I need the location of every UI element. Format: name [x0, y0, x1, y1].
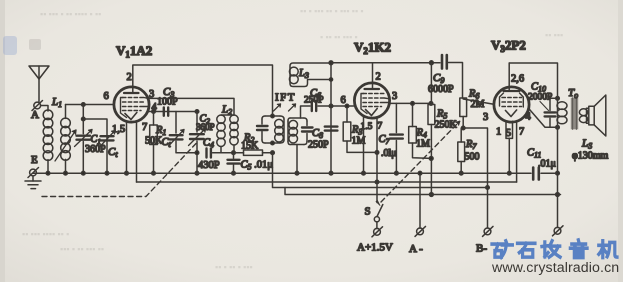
- svg-text:A -: A -: [409, 243, 423, 255]
- capacitor C3: [164, 108, 168, 116]
- wire pin3 oscillator: [147, 98, 234, 115]
- resistor R5: [428, 61, 435, 197]
- wire R6 to V3 grid: [463, 99, 494, 104]
- terminal A-: [415, 226, 426, 236]
- svg-text:2,6: 2,6: [511, 74, 524, 85]
- capacitor C5: [228, 154, 240, 175]
- svg-text:1: 1: [496, 127, 501, 138]
- resistor R3: [343, 104, 377, 152]
- terminal A+1.5V: [372, 227, 383, 237]
- svg-text:▪▪ ▪ ▪▪▪ ▪▪ ▪ ▪▪▪ ▪▪ ▪: ▪▪ ▪ ▪▪▪ ▪▪ ▪ ▪▪▪ ▪▪ ▪: [300, 6, 364, 16]
- svg-text:250P: 250P: [304, 96, 324, 106]
- capacitor C11: [533, 168, 539, 180]
- tube V2 (1K2): [354, 63, 389, 118]
- svg-text:V32P2: V32P2: [491, 38, 526, 55]
- V2 filament leg 1.5: [363, 117, 365, 173]
- terminal A: [32, 101, 43, 111]
- svg-text:▪▪▪ ▪ ▪▪ ▪▪▪ ▪▪: ▪▪▪ ▪ ▪▪ ▪▪▪ ▪▪: [60, 244, 104, 254]
- svg-text:B-: B-: [476, 243, 487, 255]
- C10 leader line: [540, 102, 549, 111]
- wire grid node down: [82, 105, 84, 120]
- rail B2: [273, 153, 488, 188]
- svg-text:500: 500: [465, 152, 480, 163]
- svg-text:3: 3: [483, 112, 488, 123]
- capacitor C7: [390, 103, 403, 175]
- watermark CJK 矿石收音机: [492, 240, 617, 258]
- coil L1 primary: [43, 110, 53, 173]
- V2 filament leg 7: [376, 117, 378, 182]
- svg-text:3: 3: [392, 91, 397, 102]
- svg-text:250P: 250P: [308, 140, 329, 151]
- svg-text:50K: 50K: [145, 136, 163, 147]
- V3 pin 4 wire: [529, 109, 558, 128]
- svg-text:2: 2: [127, 72, 132, 83]
- ground: [25, 176, 41, 189]
- net line x331: [329, 61, 333, 175]
- V3 top wire to To: [509, 63, 557, 98]
- svg-text:6: 6: [341, 95, 346, 106]
- svg-text:2: 2: [376, 72, 381, 83]
- IFT tuning arrows: [274, 104, 296, 111]
- wire R6 bottom to B- drop: [463, 128, 487, 228]
- transformer To secondary: [579, 108, 587, 123]
- svg-text:100P: 100P: [157, 97, 178, 108]
- svg-text:▪▪ ▪▪▪ ▪▪▪▪ ▪▪ ▪: ▪▪ ▪▪▪ ▪▪▪▪ ▪▪ ▪: [22, 229, 69, 239]
- resistor R6: [460, 98, 467, 130]
- coil L1 secondary: [61, 105, 71, 174]
- capacitor C8: [325, 127, 338, 131]
- wire pin4: [148, 111, 197, 113]
- wire V2 grid pin6: [331, 105, 354, 107]
- svg-text:A: A: [31, 109, 39, 121]
- antenna: [29, 66, 49, 102]
- wire V2 plate pin3: [390, 102, 432, 104]
- dashed gang line: [42, 144, 196, 197]
- wire pin6 V1: [66, 104, 114, 106]
- capacitor C2 variable: [189, 112, 206, 176]
- svg-text:1,5: 1,5: [112, 124, 125, 135]
- svg-text:4: 4: [526, 112, 532, 123]
- trimmer Ct1: [100, 131, 116, 148]
- svg-text:360P: 360P: [196, 122, 215, 132]
- svg-text:E: E: [31, 154, 38, 166]
- svg-text:A+1.5V: A+1.5V: [357, 242, 393, 254]
- tube V3 (2P2 output): [494, 63, 529, 122]
- filament rail B: [137, 181, 517, 183]
- svg-text:1M: 1M: [416, 139, 430, 150]
- svg-text:▪▪ ▪▪▪ ▪ ▪▪ ▪▪▪▪ ▪ ▪▪: ▪▪ ▪▪▪ ▪ ▪▪ ▪▪▪▪ ▪ ▪▪: [40, 9, 101, 19]
- svg-text:7: 7: [378, 122, 383, 132]
- svg-text:IFT: IFT: [275, 92, 296, 104]
- svg-text:250K: 250K: [435, 120, 458, 131]
- svg-text:V11A2: V11A2: [116, 43, 152, 60]
- volume arrow head: [456, 121, 460, 125]
- speaker Ls: [587, 95, 606, 136]
- rail C B+ bus: [285, 188, 561, 195]
- IFT primary tuned circuit: [257, 114, 284, 145]
- IFT secondary tuned circuit: [288, 118, 313, 175]
- terminal B+: [553, 226, 564, 236]
- capacitor C6: [301, 101, 332, 118]
- capacitor C9: [442, 55, 447, 69]
- A- drop wire: [419, 173, 421, 228]
- svg-text:φ130mm: φ130mm: [572, 151, 609, 162]
- svg-text:C5 .01μ: C5 .01μ: [241, 160, 274, 172]
- top rail with C9: [331, 63, 463, 99]
- svg-text:www.crystalradio.cn: www.crystalradio.cn: [491, 260, 619, 276]
- coil L2 oscillator: [217, 115, 238, 153]
- svg-text:▪▪ ▪▪▪: ▪▪ ▪▪▪: [545, 30, 563, 40]
- switch S: [374, 182, 383, 229]
- svg-text:.0lμ: .0lμ: [381, 148, 397, 159]
- trimmer Ct2: [169, 112, 197, 153]
- V3 filament pins box: [506, 121, 513, 175]
- svg-text:7: 7: [519, 127, 524, 138]
- wire A to L1: [41, 106, 48, 112]
- resistor R7: [458, 128, 465, 175]
- svg-text:6: 6: [104, 91, 109, 102]
- svg-text:V21K2: V21K2: [354, 40, 391, 57]
- resistor R4: [409, 102, 431, 159]
- transformer To primary: [557, 98, 567, 127]
- wire top of Ct: [83, 119, 107, 173]
- svg-text:▪ ▪▪ ▪▪ ▪▪▪ ▪: ▪ ▪▪ ▪▪ ▪▪▪ ▪: [320, 32, 358, 42]
- blue corner smudge: [3, 36, 17, 55]
- terminal B-: [483, 226, 494, 236]
- B+ line down from To: [557, 127, 559, 227]
- svg-text:.01μ: .01μ: [538, 159, 556, 170]
- svg-text:430P: 430P: [198, 160, 220, 171]
- ground rail A: [33, 172, 558, 174]
- V3 pin 7 leg: [516, 121, 518, 182]
- svg-text:1M: 1M: [352, 136, 366, 147]
- tube V1 (1A2 converter): [114, 87, 149, 122]
- svg-text:15K: 15K: [241, 141, 259, 152]
- capacitor C10: [545, 97, 560, 130]
- V1 filament leg pin7 to rail B: [136, 121, 138, 182]
- resistor R2: [234, 150, 275, 155]
- dashed switch-volume line: [381, 122, 460, 203]
- arrow through L1 secondary: [55, 130, 76, 161]
- terminal E: [28, 168, 39, 178]
- coil L3: [289, 63, 331, 87]
- V1 filament leg to rail A: [126, 121, 128, 173]
- svg-text:▪▪ ▪ ▪▪ ▪ ▪▪▪: ▪▪ ▪ ▪▪ ▪ ▪▪▪: [215, 262, 253, 272]
- svg-text:7: 7: [142, 122, 147, 133]
- svg-text:360P: 360P: [85, 144, 106, 155]
- resistor R1: [150, 112, 158, 176]
- V1 plate top wire: [133, 65, 273, 116]
- To core: [571, 98, 578, 130]
- capacitor C1: [75, 119, 93, 173]
- svg-text:S: S: [365, 206, 371, 218]
- capacitor C4 padder: [207, 149, 236, 158]
